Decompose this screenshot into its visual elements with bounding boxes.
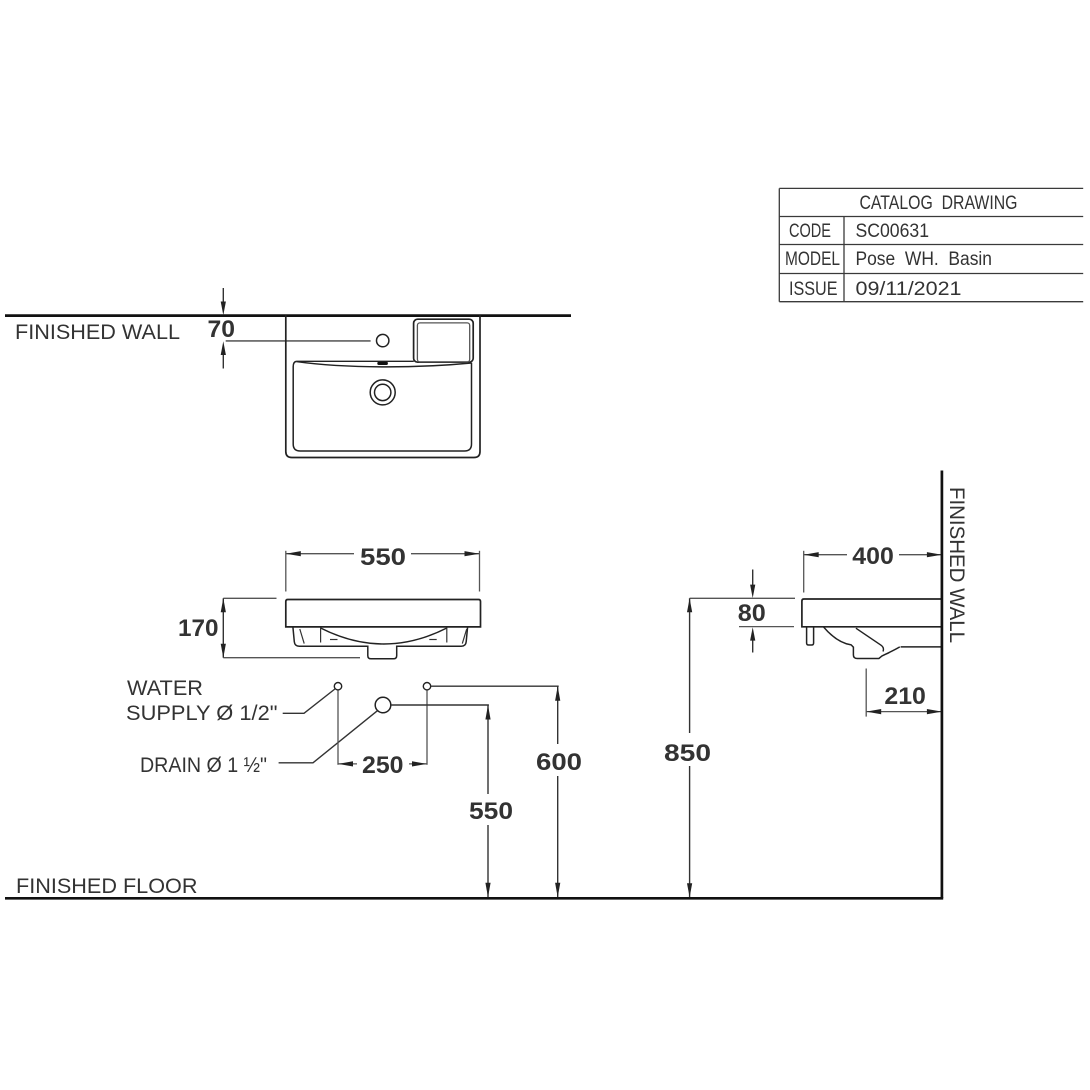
250 dimension text xyxy=(357,752,409,779)
svg-text:Pose WH. Basin: Pose WH. Basin xyxy=(856,249,993,270)
550 vertical dimension line xyxy=(485,705,490,897)
leader line from 70 to faucet hole xyxy=(226,340,371,342)
550 dimension text xyxy=(354,542,411,571)
svg-text:600: 600 xyxy=(536,749,582,776)
water supply leader xyxy=(283,689,335,713)
400 dimension line xyxy=(804,554,942,556)
svg-text:SC00631: SC00631 xyxy=(856,221,930,242)
drain hole outer xyxy=(370,380,395,405)
bowl edge tick right xyxy=(446,628,448,643)
80 dim extension top xyxy=(690,597,795,599)
leader from right supply hole to 600 line xyxy=(431,685,559,687)
svg-text:850: 850 xyxy=(664,740,711,767)
svg-text:MODEL: MODEL xyxy=(785,249,840,270)
svg-text:FINISHED FLOOR: FINISHED FLOOR xyxy=(16,875,198,898)
svg-text:80: 80 xyxy=(738,600,766,627)
svg-text:170: 170 xyxy=(178,615,219,642)
70 dimension lower arrow xyxy=(221,341,226,368)
210 dim extension vertical xyxy=(865,669,867,717)
170 dim extension top xyxy=(223,597,276,599)
svg-text:FINISHED WALL: FINISHED WALL xyxy=(945,487,968,643)
svg-text:WATER: WATER xyxy=(127,677,203,700)
850 vertical dimension line xyxy=(687,598,692,897)
svg-text:09/11/2021: 09/11/2021 xyxy=(856,279,962,300)
250 dim extension right xyxy=(426,691,428,765)
faucet hole xyxy=(377,334,389,346)
80 lower arrow xyxy=(750,627,755,652)
leader from drain to 550 line xyxy=(391,704,489,706)
550 dim extension line left xyxy=(285,551,287,592)
80 upper arrow xyxy=(750,570,755,599)
svg-text:550: 550 xyxy=(360,544,406,571)
table top line xyxy=(779,187,1083,189)
svg-text:550: 550 xyxy=(469,798,513,825)
water supply hole right xyxy=(423,683,430,690)
drain leader xyxy=(279,711,378,763)
finished wall line (side view) xyxy=(941,471,944,899)
svg-text:SUPPLY Ø 1/2": SUPPLY Ø 1/2" xyxy=(126,702,278,725)
550 dim arrow right xyxy=(465,551,480,556)
210 dim arrow right xyxy=(927,709,942,714)
drain hole inner xyxy=(375,384,391,400)
svg-text:70: 70 xyxy=(208,316,236,343)
bowl inner wall (side view) xyxy=(856,628,884,651)
finished floor line xyxy=(5,897,943,900)
400 dimension text xyxy=(847,542,899,570)
basin slab (front view) xyxy=(286,600,481,627)
table row line 4 xyxy=(779,273,1083,275)
basin bowl outline (top view) xyxy=(293,361,471,451)
finished wall line (top view) xyxy=(5,314,571,317)
underside rear line to wall xyxy=(901,646,942,648)
170 dimension line with arrows xyxy=(221,598,226,657)
bowl front rim curve (top view) xyxy=(296,362,471,367)
600 vertical dimension line xyxy=(555,686,560,897)
bowl edge tick left xyxy=(320,628,322,643)
drain point circle xyxy=(375,697,391,713)
svg-text:CATALOG DRAWING: CATALOG DRAWING xyxy=(860,193,1018,214)
svg-text:DRAIN Ø 1 ½": DRAIN Ø 1 ½" xyxy=(140,754,267,777)
bowl underside profile (side view) xyxy=(823,627,899,659)
basin slab (side view) xyxy=(802,599,942,627)
250 dimension line xyxy=(338,763,427,765)
400 dim extension left xyxy=(803,551,805,593)
table bottom line xyxy=(779,301,1083,303)
svg-text:FINISHED WALL: FINISHED WALL xyxy=(15,321,180,344)
table left border xyxy=(778,188,780,301)
170 dim extension bottom xyxy=(223,657,360,659)
table row line 3 xyxy=(779,244,1083,246)
svg-text:250: 250 xyxy=(362,752,404,779)
basin outer rim (top view) xyxy=(286,315,480,458)
deck shelf inner (top view) xyxy=(417,323,469,362)
250 dim arrow left xyxy=(338,761,353,766)
bowl back rim line (top view) xyxy=(296,360,414,362)
210 dimension line xyxy=(866,711,942,713)
550 dim extension line right xyxy=(479,551,481,592)
basin underbody (front view) xyxy=(293,627,468,659)
overflow slot mark xyxy=(377,362,388,365)
250 dim arrow right xyxy=(412,761,427,766)
deck shelf outer (top view) xyxy=(414,319,474,362)
400 dim arrow left xyxy=(804,552,819,557)
550 dimension line xyxy=(286,553,480,555)
clip mark left xyxy=(330,639,338,641)
70 dimension upper arrow xyxy=(221,288,226,315)
250 dim extension left xyxy=(337,691,339,765)
svg-text:210: 210 xyxy=(884,683,926,710)
svg-text:ISSUE: ISSUE xyxy=(789,279,838,300)
400 dim arrow right xyxy=(927,552,942,557)
underbody inner slant right xyxy=(462,629,466,644)
table column divider xyxy=(843,217,845,302)
svg-text:CODE: CODE xyxy=(789,221,831,242)
clip mark right xyxy=(429,639,436,641)
water supply hole left xyxy=(334,683,341,690)
850 dimension text xyxy=(659,733,715,767)
600 vertical dimension text xyxy=(532,744,586,776)
210 dim arrow left xyxy=(866,709,881,714)
front apron tab (side view) xyxy=(807,627,814,645)
underbody inner slant left xyxy=(300,629,304,644)
svg-text:400: 400 xyxy=(852,543,894,570)
bowl bottom curve (front view) xyxy=(321,628,447,644)
80 dim extension bottom xyxy=(739,626,794,628)
table row line 2 xyxy=(779,216,1083,218)
550 dim arrow left xyxy=(286,551,301,556)
550 vertical dimension text xyxy=(464,794,518,825)
